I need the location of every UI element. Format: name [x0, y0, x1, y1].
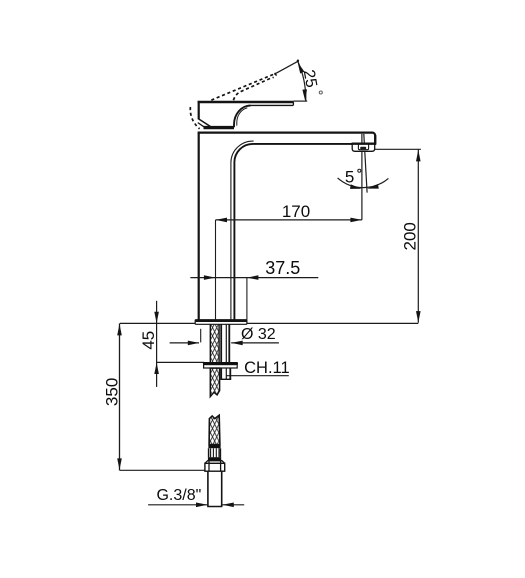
svg-text:25: 25: [300, 68, 320, 89]
svg-text:45: 45: [139, 331, 158, 350]
svg-text:G.3/8": G.3/8": [156, 487, 201, 504]
svg-text:5: 5: [345, 167, 354, 186]
svg-text:170: 170: [282, 202, 310, 221]
svg-text:CH.11: CH.11: [244, 359, 290, 377]
svg-text:37.5: 37.5: [265, 258, 300, 278]
svg-text:200: 200: [401, 222, 420, 250]
svg-text:Ø 32: Ø 32: [241, 326, 276, 343]
svg-text:350: 350: [103, 378, 122, 406]
